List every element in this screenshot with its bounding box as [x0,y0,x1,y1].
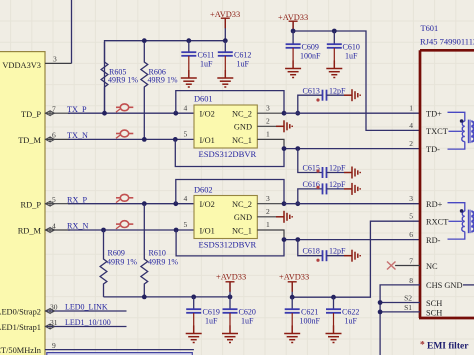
svg-text:100nF: 100nF [300,317,321,326]
svg-text:1uF: 1uF [345,52,358,61]
ground (C613 rotated) [344,89,360,101]
svg-text:6: 6 [52,131,56,140]
capacitor C611 [181,41,214,70]
svg-text:2: 2 [409,139,413,148]
EMI filter bead (RX_N) [116,221,133,229]
wire RX_P bypass over D602 [176,180,284,204]
capacitor C618 12pF [298,240,346,262]
svg-text:I/O2: I/O2 [200,110,215,119]
svg-text:S1: S1 [404,303,412,312]
transformer T601 box [419,24,474,318]
T601 pin 1 TD+ [409,104,442,119]
svg-text:LED1_10/100: LED1_10/100 [65,318,111,327]
power +AVD33 (C609 rail) [278,13,308,31]
svg-text:RD+: RD+ [426,200,443,209]
svg-text:C612: C612 [234,51,251,60]
svg-text:LED0_LINK: LED0_LINK [65,303,108,312]
ground (C621) [284,326,300,343]
svg-text:49R9 1%: 49R9 1% [148,258,178,267]
junction C610 [332,29,337,34]
junction TD- bypass [282,146,287,151]
capacitor C622 1uF [326,297,359,326]
svg-text:NC_1: NC_1 [232,226,252,235]
junction bypass riser RX_N [174,228,179,233]
svg-text:3: 3 [266,194,270,203]
svg-text:D601: D601 [194,95,213,104]
wire RX_N bypass under D602 [176,230,284,256]
svg-text:8: 8 [409,276,413,285]
capacitor C620 1uF [223,297,256,326]
junction R606/TX_N [142,137,147,142]
svg-text:CT/50MHzIn: CT/50MHzIn [0,346,42,355]
T601 pin S2 SCH [378,294,443,308]
note EMI filter [420,341,469,352]
junction R610/RX_P [142,201,147,206]
svg-text:TXCT: TXCT [426,127,448,136]
op-amp D602 ESD array [184,185,271,249]
pin 4 RD_M [18,221,70,235]
capacitor C609 100nF [286,31,321,61]
svg-text:3: 3 [53,55,57,64]
svg-text:NC_2: NC_2 [232,200,252,209]
rail bottom (R609/R610/C619/C620) [104,296,231,298]
svg-text:RD-: RD- [426,236,441,245]
svg-text:30: 30 [50,302,58,311]
polarity dot (TX winding) [460,119,464,123]
ground (D601 GND rotated) [276,120,292,132]
power +AVD33 (bottom rail) [216,273,246,297]
svg-text:5: 5 [184,220,188,229]
svg-text:RJ45 74990111216: RJ45 74990111216 [420,37,474,47]
svg-text:2: 2 [266,207,270,216]
ground (C622) [326,326,342,343]
junction RD+ bypass [282,201,287,206]
svg-text:I/O1: I/O1 [200,136,215,145]
svg-text:1uF: 1uF [345,317,358,326]
svg-text:GND: GND [234,123,252,132]
junction C615 riser [295,146,300,151]
ground (D602 GND rotated) [276,211,292,223]
junction RD- bypass [282,237,287,242]
resistor R610 [141,204,178,297]
svg-text:NC: NC [426,262,438,271]
junction R610 bottom [142,295,147,300]
pin 6 TD_M [18,131,70,145]
svg-text:7: 7 [52,105,56,114]
rail +AVD33 top (TX) [105,19,226,113]
svg-text:C609: C609 [302,43,319,52]
svg-text:+AVD33: +AVD33 [216,273,246,282]
svg-text:TD_P: TD_P [21,110,41,119]
svg-text:R609: R609 [108,249,125,258]
ground (C610) [326,61,342,78]
svg-text:C611: C611 [198,51,215,60]
junction C612 top [223,38,228,43]
svg-text:1: 1 [409,104,413,113]
svg-text:49R9 1%: 49R9 1% [108,76,138,85]
junction C618 riser [295,237,300,242]
EMI filter bead (TX_P) [116,104,133,112]
junction C621 [290,295,295,300]
svg-text:6: 6 [409,230,413,239]
svg-text:NC_2: NC_2 [232,110,252,119]
junction C619 [191,295,196,300]
junction R606 top [142,38,147,43]
svg-text:C613: C613 [303,87,320,96]
svg-text:1uF: 1uF [237,60,250,69]
svg-text:C610: C610 [343,43,360,52]
wire RX_N row [68,229,195,231]
svg-text:49R9 1%: 49R9 1% [148,76,178,85]
svg-text:4: 4 [184,104,188,113]
ground (C619) [186,326,202,343]
wire TX_N row [68,138,195,140]
ground (C612) [217,70,233,87]
svg-text:1uF: 1uF [241,317,254,326]
capacitor C616 12pF [298,180,346,204]
svg-text:1: 1 [266,130,270,139]
pin D602.2 GND [257,216,276,218]
svg-text:3: 3 [409,194,413,203]
svg-text:I/O1: I/O1 [200,226,215,235]
junction bypass riser RX_P [173,201,178,206]
svg-text:T601: T601 [421,24,439,33]
wire RD+ to T601 [284,203,420,205]
svg-text:I/O2: I/O2 [200,200,215,209]
capacitor C621 100nF [285,297,321,326]
power +AVD33 (TX rail) [210,10,240,28]
wire TX_P bypass over D601 [176,91,284,114]
capacitor C615 12pF [298,149,346,178]
svg-text:2: 2 [266,117,270,126]
svg-text:5: 5 [52,195,56,204]
svg-text:LED0/Strap2: LED0/Strap2 [0,308,41,317]
svg-text:12pF: 12pF [329,180,346,189]
svg-text:5: 5 [184,130,188,139]
svg-text:5: 5 [409,212,413,221]
EMI filter bead (RX_P) [116,194,133,202]
svg-text:12pF: 12pF [329,87,346,96]
svg-text:C618: C618 [303,247,320,256]
rail +AVD33 (C609/C610) [293,22,420,130]
svg-text:C622: C622 [342,308,359,317]
svg-text:NC_1: NC_1 [232,136,252,145]
junction C616 riser [295,201,300,206]
svg-text:LED1/Strap1: LED1/Strap1 [0,323,41,332]
resistor R609 [100,230,137,297]
svg-text:S2: S2 [404,294,412,303]
rail +AVD33 (C621/C622) and RXCT feed [292,221,420,297]
T601 pin 7 NC with no-ERC marker [395,257,438,271]
svg-text:RD_M: RD_M [18,227,42,236]
svg-text:C620: C620 [239,308,256,317]
capacitor C610 1uF [327,31,360,61]
ground (C620) [222,326,238,343]
wire TX_N bypass under D601 [175,139,284,166]
capacitor C613 12pF [298,87,346,114]
svg-text:RXCT: RXCT [426,218,448,227]
svg-text:SCH: SCH [426,299,442,308]
pin D602.3 NC_2 [257,203,284,205]
net label RX_N [67,222,88,231]
resistor R605 [101,42,138,112]
junction C613 riser [295,111,300,116]
pin D601.2 GND [257,125,276,127]
T601 TX winding [448,112,474,149]
svg-text:4: 4 [184,194,188,203]
ground (C618 rotated) [344,250,360,262]
pin D601.3 NC_2 [257,112,284,114]
wire RX_P row [68,203,195,205]
svg-text:4: 4 [409,121,413,130]
net label LED1_10/100 [65,318,111,327]
pin 5 RD_P [21,195,70,209]
pin 3 VDDA3V3 [2,55,71,71]
svg-text:+AVD33: +AVD33 [210,10,240,19]
svg-text:RX_N: RX_N [67,222,88,231]
junction C611 top [186,38,191,43]
junction TD+ bypass [282,111,287,116]
svg-text:100nF: 100nF [300,52,321,61]
svg-text:1uF: 1uF [205,317,218,326]
T601 pin 4 TXCT [409,121,448,136]
svg-text:12pF: 12pF [329,247,346,256]
svg-text:12pF: 12pF [329,164,346,173]
T601 RX winding [448,203,474,239]
sheet symbol (bottom, cut) [47,353,193,355]
wire TD- row [284,148,420,150]
ground (C615 rotated) [344,167,360,179]
polarity dot (RX winding) [460,209,464,213]
svg-text:4: 4 [52,221,56,230]
net label TX_P [67,105,87,114]
pin D601.1 NC_1 [257,139,284,148]
svg-text:7: 7 [409,257,413,266]
EMI filter bead (TX_N) [116,130,133,138]
svg-text:C619: C619 [203,308,220,317]
svg-text:9: 9 [52,341,56,350]
svg-text:49R9 1%: 49R9 1% [107,258,137,267]
junction R605/TX_P [102,111,107,116]
T601 pin 5 RXCT [409,212,448,227]
op-amp D601 ESD array [184,95,271,160]
svg-text:TX_P: TX_P [67,105,87,114]
svg-text:1uF: 1uF [200,60,213,69]
svg-text:TD_M: TD_M [18,136,41,145]
svg-text:VDDA3V3: VDDA3V3 [2,61,41,70]
wire TD+ to T601 [284,112,420,114]
pin 9 50MHzIn [0,341,194,355]
svg-text:D602: D602 [194,185,213,194]
svg-text:3: 3 [266,104,270,113]
power +AVD33 (C621 rail) [279,273,309,298]
junction C609 [291,29,296,34]
T601 pin S1 SCH [378,303,443,317]
junction C620 [228,295,233,300]
svg-text:C621: C621 [301,308,318,317]
net label LED0_LINK [65,303,108,312]
svg-text:ESDS312DBVR: ESDS312DBVR [199,240,257,250]
resistor R606 [141,42,178,139]
svg-text:R610: R610 [149,249,166,258]
svg-text:CHS GND: CHS GND [426,281,463,290]
T601 pin 2 TD- [409,139,440,154]
junction bypass riser TX_N [173,137,178,142]
T601 pin 8 CHS GND [380,276,474,355]
svg-text:EMI filter: EMI filter [427,342,469,352]
svg-text:31: 31 [50,318,58,327]
svg-text:1: 1 [266,220,270,229]
capacitor C612 [218,41,252,70]
svg-text:RX_P: RX_P [67,195,87,204]
net label RX_P [67,195,87,204]
T601 pin 3 RD+ [409,194,442,209]
net label TX_N [67,131,88,140]
ground (C611) [181,70,197,87]
T601 pin 6 RD- [409,230,440,245]
svg-text:TD-: TD- [426,145,440,154]
junction bypass riser TX_P [173,111,178,116]
capacitor C619 1uF [186,297,220,326]
pin D602.1 NC_1 [257,230,284,240]
svg-text:*: * [420,341,425,351]
svg-text:SCH: SCH [426,308,442,317]
wire TX_P row [68,112,195,114]
ground (C609) [285,61,301,78]
pin 7 TD_P [21,105,70,119]
svg-text:+AVD33: +AVD33 [278,13,308,22]
pin 30 LED0/Strap2 [0,302,127,316]
svg-text:TX_N: TX_N [67,131,88,140]
wire RD- row [284,239,420,241]
wire VDDA3V3 up [71,0,73,63]
junction C622 [331,295,336,300]
svg-text:+AVD33: +AVD33 [279,273,309,282]
svg-text:TD+: TD+ [426,110,442,119]
no-ERC X marker [387,262,396,270]
svg-text:ESDS312DBVR: ESDS312DBVR [199,149,257,159]
pin 31 LED1/Strap1 [0,318,127,332]
PHY IC box [0,52,45,355]
svg-text:RD_P: RD_P [21,200,42,209]
svg-text:GND: GND [234,213,252,222]
ground (C616 rotated) [344,183,360,195]
junction R609/RX_N [101,228,106,233]
